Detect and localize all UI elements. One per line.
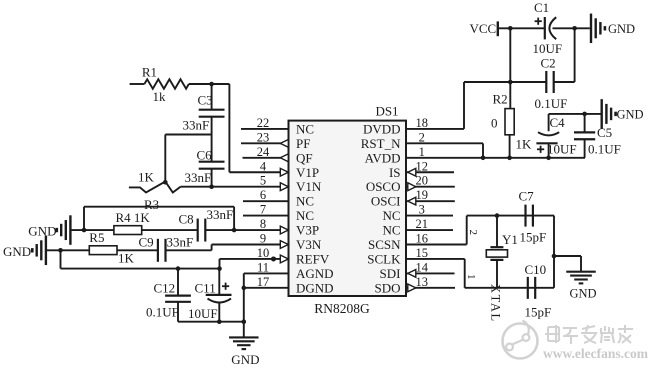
wire C12 top leg (177, 269, 179, 296)
node junction GND2/ref rail (58, 248, 63, 253)
svg-text:0.1UF: 0.1UF (146, 305, 179, 320)
svg-text:C4: C4 (550, 115, 566, 130)
node junction rail/C12 (176, 266, 181, 271)
capacitor C1 polarized (533, 0, 563, 56)
svg-text:2: 2 (467, 230, 479, 236)
wire C12 bottom leg (177, 302, 179, 322)
wire DVDD riser (406, 82, 547, 129)
svg-text:0.1UF: 0.1UF (588, 142, 621, 157)
wire C1 to GND (553, 27, 590, 29)
IC designator DS1 (375, 104, 398, 119)
svg-text:DGND: DGND (296, 280, 334, 295)
pin 23 PF (left) (241, 130, 310, 151)
svg-text:11: 11 (257, 260, 269, 274)
wire node to left rail (165, 135, 211, 182)
capacitor C11 polarized (188, 269, 232, 321)
svg-text:1K: 1K (138, 170, 155, 185)
svg-text:33nF: 33nF (207, 207, 234, 222)
wire R5 to C9 (117, 249, 158, 251)
node junction VCC/R2 rail (508, 26, 513, 31)
svg-text:NC: NC (296, 121, 314, 136)
pin 10 REFV (left) (257, 246, 330, 267)
svg-text:R4 1K: R4 1K (116, 210, 151, 225)
pin 5 V1N (left) (260, 174, 322, 195)
svg-text:R5: R5 (89, 230, 104, 245)
wire bypass loop around R4-C8 (84, 207, 234, 230)
svg-text:8: 8 (260, 217, 266, 231)
svg-text:13: 13 (416, 275, 429, 289)
node dot on REFV wire (271, 256, 276, 261)
svg-text:3: 3 (419, 203, 425, 217)
svg-text:12: 12 (416, 159, 429, 173)
svg-text:C6: C6 (197, 148, 213, 163)
wire crystal bottom rail (465, 287, 554, 289)
node junction right rail/gnd stub (552, 254, 557, 259)
svg-text:23: 23 (257, 130, 270, 144)
pin 3 NC (right) (382, 203, 453, 224)
resistor R4 (114, 210, 151, 235)
wire REFV riser to pin 10 (220, 255, 289, 269)
node junction C6/V1N wire (209, 184, 214, 189)
svg-text:22: 22 (257, 116, 270, 130)
svg-text:5: 5 (260, 174, 266, 188)
svg-text:1: 1 (419, 145, 425, 159)
pin 4 V1P (left) (260, 159, 319, 180)
watermark logo circle (503, 321, 538, 359)
svg-text:SDI: SDI (380, 266, 401, 281)
node junction crystal top (495, 213, 500, 218)
node junction rail/R3 (163, 180, 168, 185)
svg-text:RST_N: RST_N (361, 136, 401, 151)
pin 24 QF (left) (243, 145, 313, 166)
capacitor C10 (525, 262, 552, 320)
wire AGND DGND to ground (244, 273, 289, 337)
pin 7 NC (left) (243, 203, 314, 224)
ground GND top right (591, 14, 635, 44)
svg-text:21: 21 (416, 217, 429, 231)
svg-text:10: 10 (257, 246, 270, 260)
wire C2 to riser up (554, 28, 575, 82)
svg-text:RN8208G: RN8208G (314, 301, 370, 316)
wire R1 right to corner (189, 83, 230, 85)
svg-text:SDO: SDO (374, 280, 400, 295)
svg-text:GND: GND (28, 223, 56, 238)
watermark url text (543, 346, 649, 361)
svg-text:10UF: 10UF (547, 142, 577, 157)
ground GND2 (left lower) (3, 236, 46, 265)
svg-text:C1: C1 (534, 0, 549, 15)
ground GND1 (left upper) (28, 215, 70, 245)
svg-text:9: 9 (260, 232, 266, 246)
svg-text:16: 16 (416, 232, 429, 246)
pin 16 SCSN (right) (368, 232, 428, 253)
wire C9 to pin 9 V3N with jog (166, 241, 289, 251)
capacitor C9 (139, 235, 194, 262)
ground GND low right (566, 272, 596, 301)
wire R4 to C8 (142, 229, 198, 231)
ground GND bottom center (229, 337, 259, 367)
node junction DGND (242, 286, 247, 291)
svg-text:15pF: 15pF (520, 230, 547, 245)
node junction C5 top (582, 112, 587, 117)
pin 20 OSCO (right) (366, 174, 455, 195)
svg-text:17: 17 (257, 275, 270, 289)
wire V1P rail down to pin 4 (229, 84, 288, 176)
node junction C11/ground rail (217, 319, 222, 324)
svg-text:GND: GND (3, 244, 31, 259)
svg-text:NC: NC (296, 194, 314, 209)
svg-text:24: 24 (257, 145, 270, 159)
svg-text:14: 14 (416, 260, 429, 274)
wire GND1 to R4 (71, 229, 114, 231)
svg-text:2: 2 (419, 130, 425, 144)
wire GND2 to R5 (47, 249, 90, 251)
capacitor C7 (519, 189, 547, 245)
node junction bypass/C8 (232, 228, 237, 233)
node junction R2/AVDD (507, 156, 512, 161)
pin 8 V3P (left) (260, 217, 319, 238)
svg-text:IS: IS (389, 165, 401, 180)
svg-text:VCC: VCC (470, 21, 497, 36)
wire stub to GND low (554, 256, 581, 271)
svg-text:1K: 1K (118, 251, 135, 266)
svg-text:Y1: Y1 (502, 232, 518, 247)
wire R2 bottom to AVDD rail (509, 135, 511, 158)
svg-text:R1: R1 (142, 65, 157, 80)
svg-text:NC: NC (382, 208, 400, 223)
capacitor C3 (183, 93, 225, 133)
svg-text:OSCO: OSCO (366, 179, 401, 194)
svg-text:0: 0 (491, 116, 498, 131)
pin 18 DVDD (right) (363, 116, 428, 136)
svg-text:33nF: 33nF (167, 235, 194, 250)
crystal label XTAL vertical (489, 284, 503, 323)
svg-text:1k: 1k (153, 89, 167, 104)
svg-text:REFV: REFV (296, 251, 330, 266)
node junction R2 rail/C2 wire (508, 80, 513, 85)
pin 19 OSCI (right) (371, 188, 455, 209)
svg-text:SCLK: SCLK (367, 251, 401, 266)
svg-text:10UF: 10UF (533, 41, 563, 56)
IC part number RN8208G (314, 301, 370, 316)
pin 2 RST_N (right) (361, 130, 425, 151)
wire SCLK to crystal bottom (406, 259, 465, 288)
svg-text:4: 4 (260, 159, 267, 173)
svg-text:15: 15 (416, 246, 429, 260)
node junction RST_N/AVDD (481, 156, 486, 161)
svg-text:20: 20 (416, 174, 429, 188)
svg-text:SCSN: SCSN (368, 237, 401, 252)
wire crystal top rail (467, 215, 554, 217)
wire C3 top (211, 84, 213, 110)
svg-text:NC: NC (382, 223, 400, 238)
node junction rail/C11/REFV (217, 266, 222, 271)
svg-text:10UF: 10UF (188, 306, 218, 321)
pin 14 SDI (right) (380, 260, 455, 281)
pin 9 V3N (left) (260, 232, 322, 253)
watermark chinese text (545, 325, 633, 344)
svg-text:OSCI: OSCI (371, 194, 401, 209)
wire C3 bottom to node (211, 117, 213, 162)
svg-text:1K: 1K (516, 137, 533, 152)
wire AVDD pin1 rail (406, 157, 585, 159)
svg-text:0.1UF: 0.1UF (535, 96, 568, 111)
pin 15 SCLK (right) (367, 246, 428, 267)
pin 17 DGND (left) (257, 275, 334, 296)
crystal pin number 1 (465, 274, 477, 280)
capacitor C6 (185, 148, 225, 186)
svg-text:NC: NC (296, 208, 314, 223)
wire SCSN to crystal top (406, 216, 467, 245)
svg-text:GND: GND (570, 287, 597, 301)
power VCC terminal (470, 21, 498, 36)
op-amp U1: IC DS1 RN8208G body (289, 121, 407, 296)
svg-text:C10: C10 (525, 262, 547, 277)
capacitor C12 (146, 281, 191, 320)
svg-text:33nF: 33nF (183, 118, 210, 133)
pin 1 AVDD (right) (365, 145, 425, 166)
svg-text:C5: C5 (597, 125, 612, 140)
svg-text:PF: PF (296, 136, 310, 151)
svg-text:V1P: V1P (296, 165, 319, 180)
wire VCC rail down to R2 (509, 28, 511, 108)
svg-text:C9: C9 (139, 235, 154, 250)
svg-text:AVDD: AVDD (365, 150, 401, 165)
svg-text:C11: C11 (195, 281, 216, 296)
svg-text:C3: C3 (198, 93, 213, 108)
pin 6 NC (left) (243, 188, 314, 209)
svg-text:C7: C7 (519, 189, 535, 204)
svg-text:V3P: V3P (296, 223, 319, 238)
svg-text:C8: C8 (179, 212, 194, 227)
node junction C4/AVDD (546, 156, 551, 161)
svg-text:33nF: 33nF (185, 170, 212, 185)
wire C6 bottom (211, 169, 213, 187)
svg-text:GND: GND (608, 22, 635, 36)
svg-text:www.elecfans.com: www.elecfans.com (543, 346, 649, 361)
capacitor C4 polarized (536, 114, 576, 158)
pin 12 IS (right) (389, 159, 454, 180)
svg-text:AGND: AGND (296, 266, 334, 281)
pin 13 SDO (right) (374, 275, 455, 296)
wire VCC to C1 (498, 27, 544, 29)
svg-text:C2: C2 (541, 56, 556, 71)
capacitor C8 (179, 207, 234, 241)
crystal Y1 (486, 216, 518, 288)
svg-text:18: 18 (416, 116, 429, 130)
svg-text:QF: QF (296, 150, 313, 165)
pin 22 NC (left) (241, 116, 314, 136)
svg-text:R2: R2 (493, 92, 508, 107)
wire reference rail down and right (61, 250, 220, 268)
wire analog gnd top wire (549, 113, 601, 115)
resistor R1 (142, 65, 189, 105)
svg-text:15pF: 15pF (525, 305, 552, 320)
svg-text:DVDD: DVDD (363, 121, 401, 136)
label 1K near R2 (516, 137, 533, 152)
wire R1 left stub (130, 83, 145, 85)
ground GND mid right (602, 99, 644, 128)
wire RST_N to rail (406, 143, 483, 157)
wire C8 to pin 8 V3P (205, 226, 288, 234)
capacitor C5 (574, 114, 621, 158)
node junction bypass/R4 wire (82, 228, 87, 233)
svg-text:GND: GND (617, 108, 644, 122)
pin 11 AGND (left) (257, 260, 334, 281)
node junction C1/C2 riser (572, 26, 577, 31)
pin 21 NC (right) (382, 217, 453, 238)
capacitor C2 (535, 56, 568, 112)
wire right rail down (553, 216, 555, 288)
svg-text:V1N: V1N (296, 179, 322, 194)
resistor R5 (89, 230, 134, 266)
wire bottom ground rail (178, 321, 244, 323)
resistor R3 (129, 170, 181, 213)
svg-text:19: 19 (416, 188, 429, 202)
svg-text:DS1: DS1 (375, 104, 398, 119)
svg-text:6: 6 (260, 188, 266, 202)
svg-text:1: 1 (465, 274, 477, 280)
svg-text:7: 7 (260, 203, 266, 217)
crystal pin number 2 (467, 230, 479, 236)
node junction R1/C3 (209, 82, 214, 87)
svg-text:GND: GND (231, 352, 259, 367)
svg-text:V3N: V3N (296, 237, 322, 252)
node junction ground rail/stem (242, 319, 247, 324)
svg-text:XTAL: XTAL (489, 284, 503, 323)
svg-text:C12: C12 (154, 281, 176, 296)
wire R3 to pin 5 V1N (181, 183, 289, 191)
resistor R2 (491, 92, 514, 135)
wire C11 bottom leg (218, 303, 220, 322)
